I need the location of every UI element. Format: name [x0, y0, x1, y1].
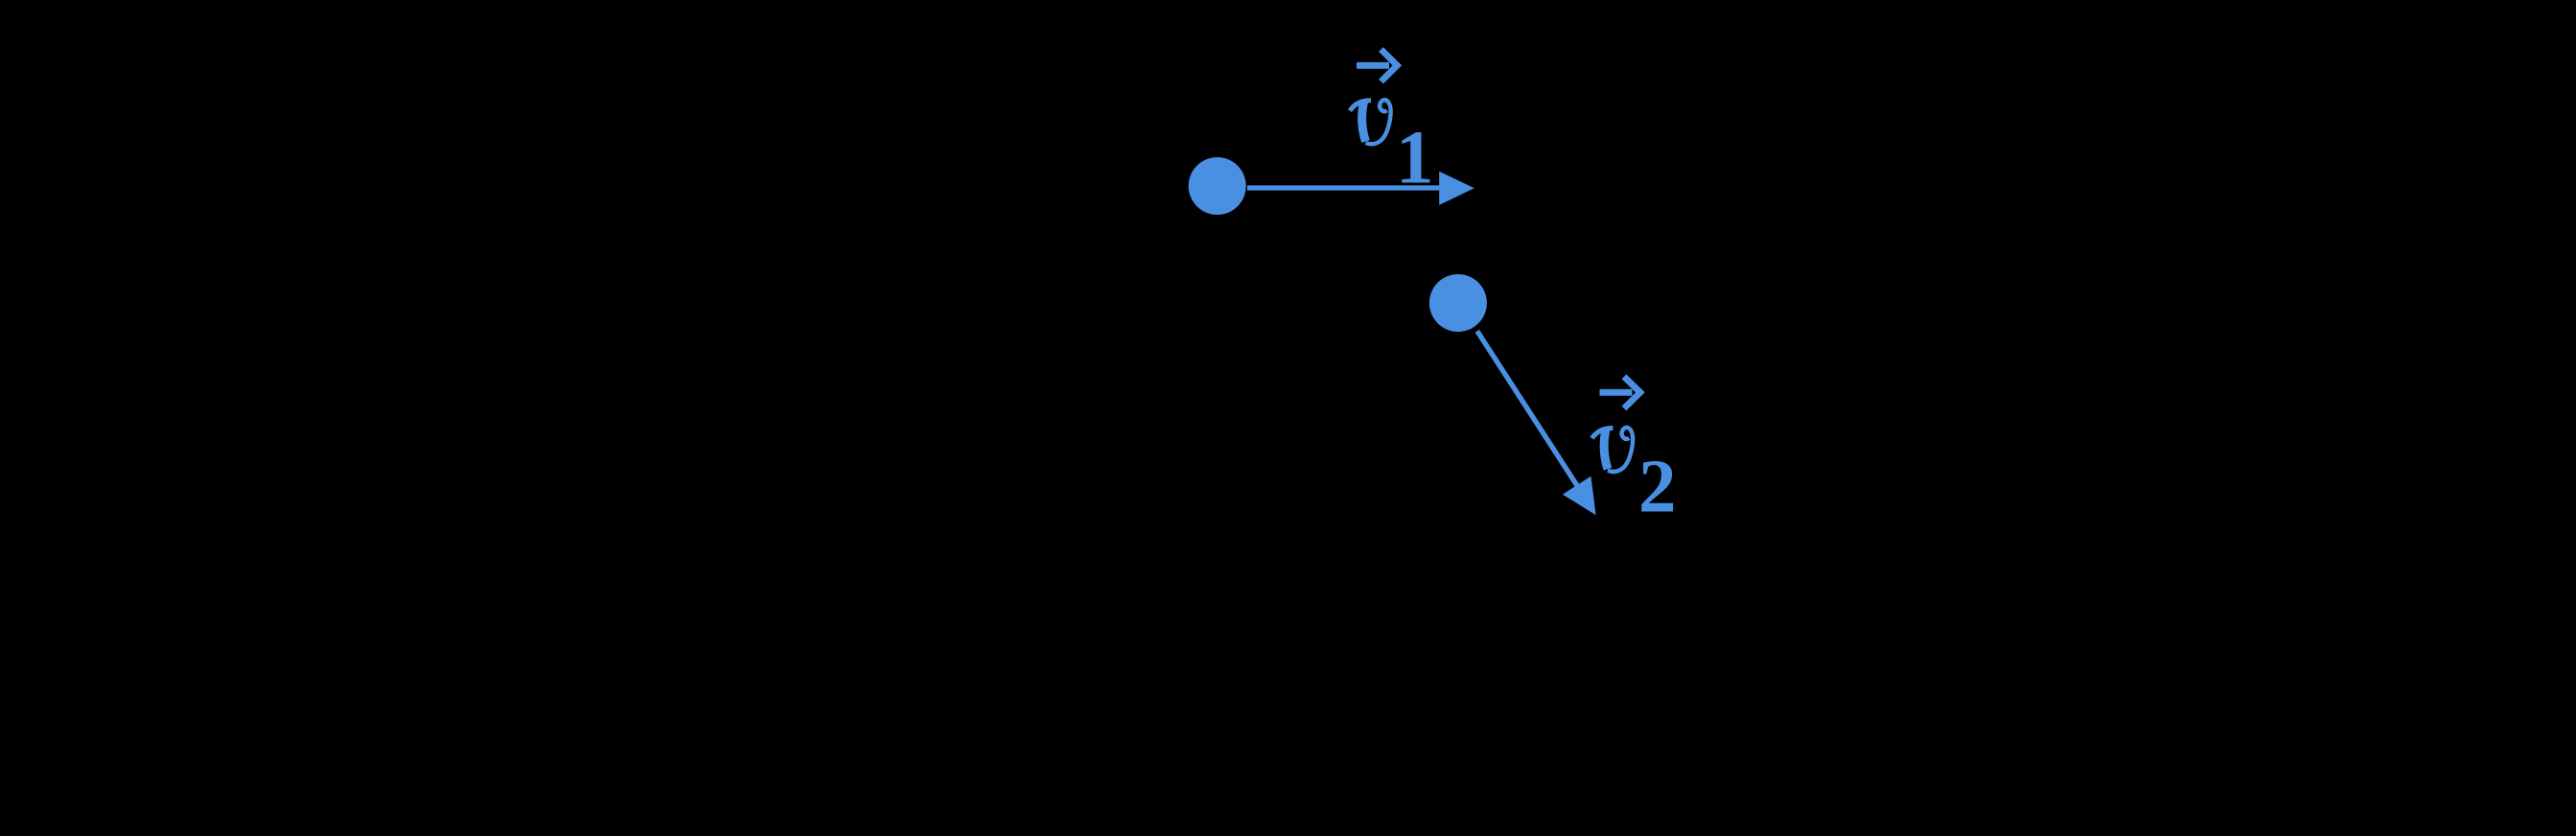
label v2 vector arrow accent [1600, 377, 1640, 408]
label v1 vector arrow accent [1357, 50, 1397, 82]
velocity vector v2 arrowhead [1563, 476, 1596, 516]
svg-text:1: 1 [1396, 117, 1434, 200]
label v2 letter v [1592, 428, 1634, 472]
velocity vector v1 arrow shaft [1247, 185, 1441, 190]
particle dot 2 [1429, 274, 1487, 332]
svg-text:2: 2 [1638, 446, 1677, 529]
particle dot 1 [1189, 157, 1246, 215]
label v1 letter v [1350, 100, 1391, 144]
velocity vector v2 arrow shaft [1477, 331, 1578, 487]
velocity vector v1 arrowhead [1439, 172, 1474, 205]
